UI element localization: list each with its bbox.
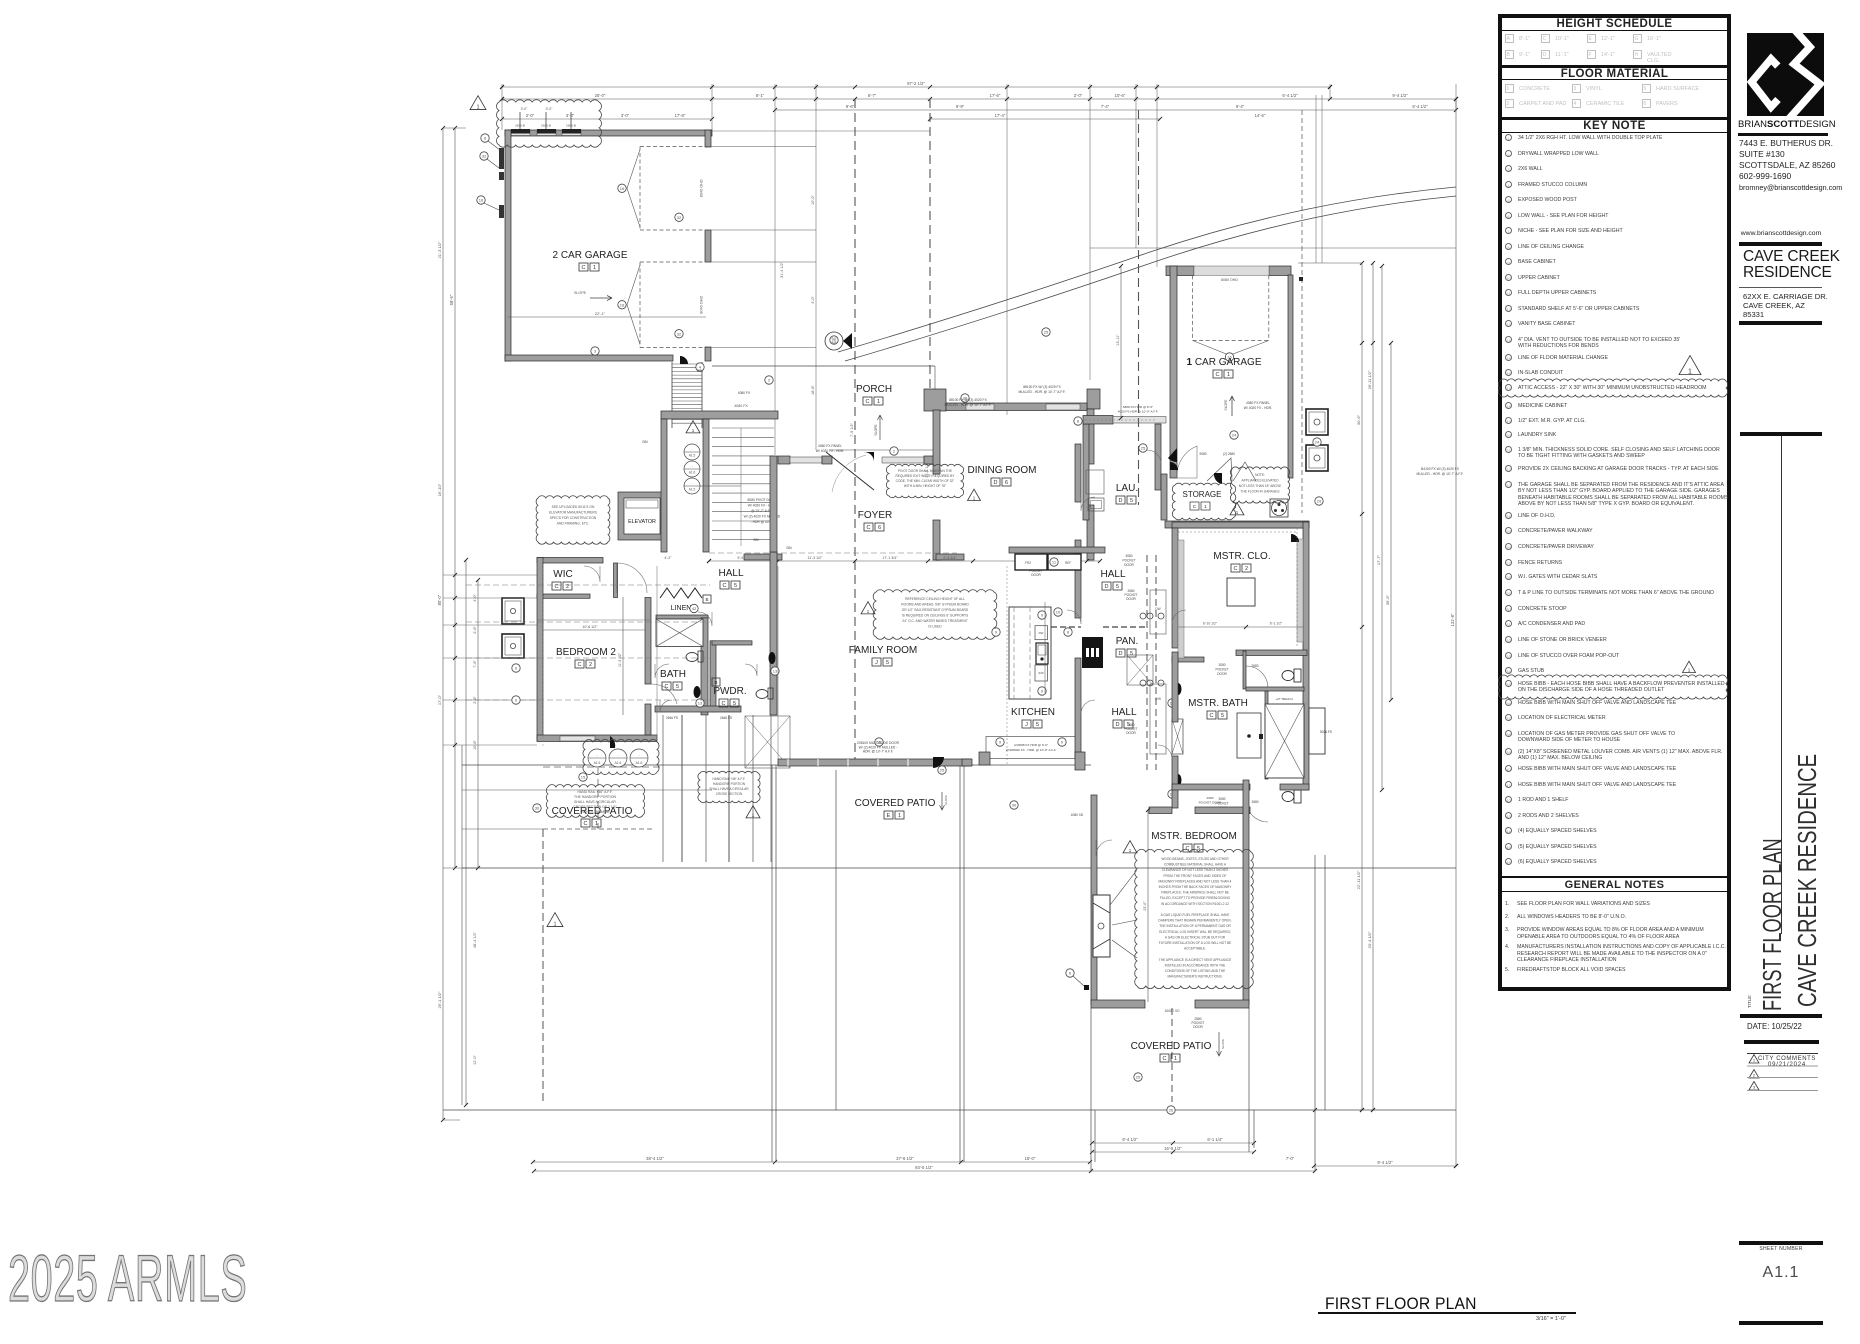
svg-text:1: 1 bbox=[1688, 668, 1691, 673]
svg-text:3: 3 bbox=[1753, 1085, 1756, 1090]
svg-text:2: 2 bbox=[1753, 1073, 1756, 1078]
svg-text:09/21/2024: 09/21/2024 bbox=[1768, 1062, 1806, 1068]
svg-text:1: 1 bbox=[1753, 1058, 1756, 1063]
svg-text:1: 1 bbox=[1688, 368, 1692, 375]
